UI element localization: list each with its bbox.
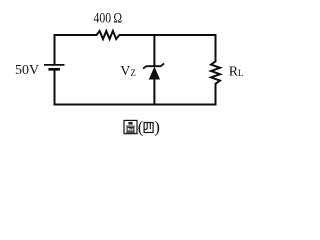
svg-text:(: ( (138, 118, 144, 137)
svg-text:50V: 50V (15, 63, 39, 78)
svg-text:400 Ω: 400 Ω (94, 10, 123, 26)
svg-text:VZ: VZ (120, 64, 136, 79)
svg-text:): ) (154, 118, 160, 137)
svg-text:RL: RL (229, 65, 244, 80)
